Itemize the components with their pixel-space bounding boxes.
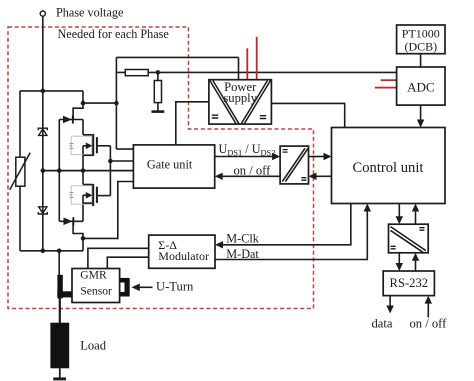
GMR primary conductor tab (left, thick) (57, 275, 72, 299)
transistor Q1 (upper MOSFET) (70, 134, 111, 156)
node: Phase voltage input terminal (40, 11, 45, 16)
wire: bottom rail drop to GMR primary (58, 251, 60, 277)
diode D4 (bottom bypass, pointing right) (64, 217, 75, 225)
svg-text:Sensor: Sensor (80, 285, 112, 298)
wire: UDS1/UDS2 line gate unit to isolator U2 (215, 156, 273, 158)
arrow: ADC into control unit (417, 120, 424, 128)
resistor R2 (vertical divider) (154, 81, 161, 103)
diode D2 (on phase line, pointing down) (38, 207, 47, 214)
ground: below load (53, 377, 66, 380)
wire: node B to gate-unit pin4 (83, 182, 133, 239)
svg-text:GMR: GMR (80, 269, 107, 282)
wire: load bottom lead (59, 368, 61, 378)
wire: divider resistor R2 bottom lead (157, 103, 159, 111)
wire: isolator U3 to control unit (up) (415, 211, 417, 224)
arrow: U-Turn into GMR tab (132, 284, 140, 292)
wire: gate-unit pin2 lead (gates) y=161 (110, 160, 133, 162)
wire: lower MOSFET source/bulk tie down to bottom diode line (82, 195, 84, 221)
arrow: control into isolator U3 (396, 216, 403, 224)
red feed lines into power supply top (247, 37, 256, 79)
isolator U3 (RS-232 optocoupler) (389, 224, 429, 253)
wire: isolator U3 to RS-232 (down) (398, 253, 400, 264)
arrow: on/off into isolator U2 right (309, 173, 317, 180)
red sense lines into ADC left (375, 80, 396, 87)
ADC box (397, 67, 445, 105)
svg-text:ADC: ADC (407, 80, 434, 95)
arrow: isolator U3 into RS-232 (396, 263, 403, 271)
svg-text:Control unit: Control unit (353, 160, 424, 176)
arrow: UDS into isolator U2 (272, 153, 280, 160)
wire: M-Dat from modulator to control unit (215, 211, 367, 260)
wire: bottom rail y=250.8 (20, 250, 83, 252)
svg-text:M-Dat: M-Dat (226, 247, 259, 261)
svg-text:RS-232: RS-232 (390, 276, 429, 290)
wire: gate-unit pin1 lead y=149.1 (116, 148, 133, 150)
wire: node A rail y=103.1 (83, 91, 116, 103)
wire: jog bottom diode cathode down to node B (73, 221, 83, 251)
svg-text:Needed for each Phase: Needed for each Phase (58, 27, 169, 41)
sigma-delta modulator box (149, 235, 215, 268)
transistor Q2 (lower MOSFET) (70, 184, 111, 206)
wire: U-Turn lead (140, 286, 153, 288)
arrow: UDS into control unit (324, 153, 332, 160)
RS-232 box (383, 271, 434, 296)
load (black rectangle) (50, 323, 69, 369)
wire: sense line y=72.4 to ADC (116, 71, 396, 73)
wire: ADC to control unit (420, 105, 422, 121)
wire: phase line vertical x=42.8 from terminal to bottom rail (42, 16, 44, 251)
wire: RS-232 data out (389, 296, 391, 307)
wire: left bypass loop wire x=59.3 (58, 120, 60, 222)
wire: load top lead (59, 298, 61, 324)
arrow: data output (386, 306, 393, 314)
wire: vertical x=116.4 from top wire through resistor tee to gate-unit pin1 (115, 57, 117, 149)
svg-text:M-Clk: M-Clk (226, 231, 259, 245)
svg-text:U-Turn: U-Turn (156, 279, 194, 293)
wire: power supply left lead to gate unit top (176, 102, 209, 145)
wire: upper MOSFET source/bulk tie down to middle rail and lower MOSFET drain (82, 146, 84, 185)
ground: below divider resistor R2 (152, 110, 165, 113)
wire: PT1000 to ADC (420, 54, 422, 67)
wire: control unit to isolator U3 (down) (398, 204, 400, 218)
svg-text:data: data (372, 317, 393, 331)
arrow: on/off into RS-232 (425, 296, 432, 304)
svg-text:on / off: on / off (234, 164, 272, 178)
wire: GMR sensor output 2 to modulator (107, 257, 148, 268)
wire: divider resistor R2 top lead (157, 72, 159, 80)
svg-text:Phase voltage: Phase voltage (56, 6, 123, 20)
wire: varistor upper lead (19, 91, 21, 157)
control unit box (332, 128, 446, 204)
wire: RS-232 to isolator U3 (up) (415, 260, 417, 271)
wire: top rail y=90.9 (varistor to node A branch) (20, 90, 83, 92)
svg-text:(DCB): (DCB) (404, 40, 437, 54)
wire: UDS line isolator U2 to control unit (309, 156, 325, 158)
gate unit box (133, 145, 214, 188)
arrow: isolator U3 into control (412, 204, 419, 212)
wire: bottom bypass diode line y=221.3 (59, 220, 83, 222)
power supply U1 (DC/DC block) (209, 80, 272, 124)
wire: drop x=238.5 into power supply top (238, 57, 240, 79)
wire: M-Clk from control unit to modulator (223, 204, 351, 245)
GMR U-Turn tab (right bracket) (120, 278, 130, 297)
wire: on/off input to RS-232 (427, 303, 429, 318)
svg-text:PT1000: PT1000 (402, 27, 440, 41)
boundary: red dashed "Needed for each Phase" region (8, 27, 314, 309)
varistor RV1 (10, 153, 31, 190)
wire: top horizontal wire y=57.4 (116, 56, 238, 58)
GMR sensor box (72, 269, 120, 303)
wire: gates vertical x=110.4 (109, 146, 111, 196)
wire: on/off line isolator U2 to gate unit (222, 175, 280, 177)
arrow: M-Dat into control unit (364, 204, 371, 212)
wire: power supply right lead to control unit top (271, 103, 344, 127)
wire: on/off line control unit to isolator U2 (316, 175, 332, 177)
arrowheads (132, 120, 433, 314)
resistor R1 (horizontal, top) (125, 70, 148, 76)
svg-text:on / off: on / off (410, 317, 448, 331)
svg-text:supply: supply (223, 91, 257, 105)
diode D3 (top bypass, pointing right) (63, 115, 74, 123)
arrow: M-Clk into modulator (215, 241, 223, 248)
wire: top bypass diode line y=119.5 (59, 119, 83, 121)
wire: jog node A to top diode cathode (73, 103, 83, 119)
wire: drain drop to upper MOSFET top stub (82, 120, 84, 135)
svg-text:Gate unit: Gate unit (147, 158, 193, 172)
PT1000 (DCB) box (397, 25, 445, 54)
wire: GMR sensor output 1 to modulator (88, 248, 149, 268)
junction dots (41, 70, 161, 253)
svg-text:Modulator: Modulator (158, 249, 209, 263)
svg-text:Load: Load (80, 339, 107, 353)
diode D1 (on phase line, pointing up) (38, 128, 47, 135)
arrow: RS-232 into isolator U3 (412, 253, 419, 261)
isolator U2 (UDS/on-off optocoupler) (280, 146, 308, 184)
arrow: on/off into gate unit (215, 173, 223, 180)
wire: varistor lower lead down to bottom rail (19, 186, 21, 251)
wire: middle rail y=170.6 to gate-unit pin3 (43, 170, 134, 172)
